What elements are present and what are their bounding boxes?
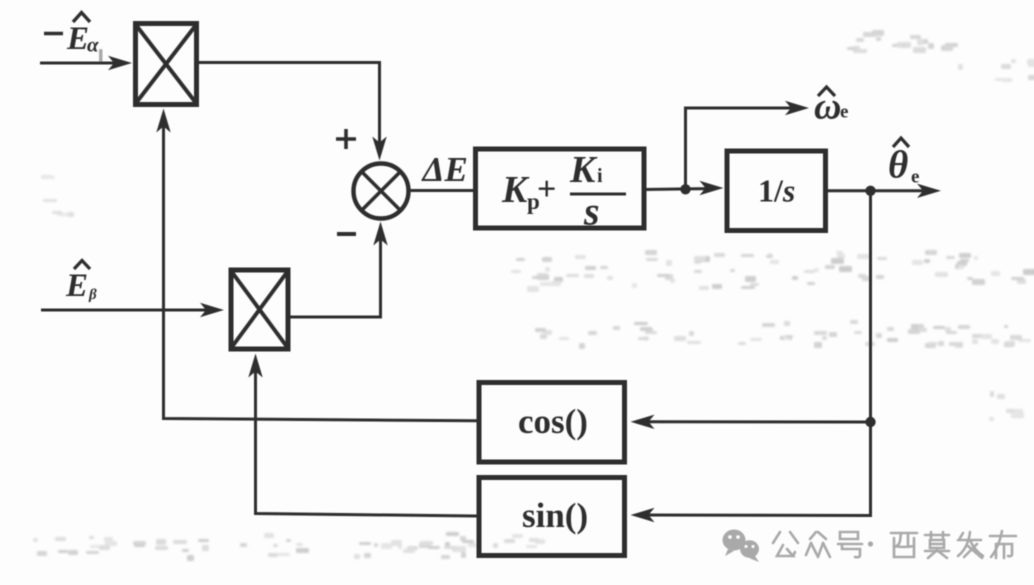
PI controller block Kp+Ki/s [476,149,645,234]
label -E_alpha [44,13,99,58]
svg-text:K: K [569,149,598,191]
label E_beta [65,261,97,305]
minus sign [337,232,356,236]
wire: branch to omega_e [686,101,810,189]
plus sign [336,129,356,149]
svg-text:cos(): cos() [518,402,588,441]
node: cos tap [865,417,875,427]
wire: cos output up into M1 [156,109,476,421]
multiplier M1 [136,24,197,105]
svg-text:i: i [597,165,603,187]
svg-text:β: β [88,287,97,303]
svg-text:+: + [537,171,556,208]
wire: feedback vertical [640,191,871,516]
wire: feedback into cos [631,415,871,429]
wire: PI output to 1/s [644,181,724,195]
integrator block 1/s [727,151,826,231]
svg-text:θ: θ [888,144,908,187]
arrow into sin [631,508,655,522]
svg-text:s: s [583,189,600,234]
svg-text:α: α [87,33,99,57]
svg-text:ΔE: ΔE [421,150,468,189]
cos() block [479,383,625,463]
wire: summing junction to PI block [409,189,476,192]
svg-text:1/s: 1/s [758,173,795,209]
watermark text (stylized) [773,531,1016,558]
wire: sin output up into M2 [248,354,476,517]
svg-text:e: e [840,102,848,123]
wire: M2 output into summing junction [291,222,388,318]
wire: M1 output to summing junction [199,63,387,161]
svg-text:e: e [911,167,919,188]
label theta_e [888,138,919,188]
svg-text:K: K [501,169,530,211]
node: feedback branch [865,186,875,196]
wire: input -E_alpha into M1 [40,56,132,70]
svg-text:sin(): sin() [522,496,588,535]
wire: E_beta input into M2 [41,303,224,317]
speck [99,49,103,64]
summing junction [354,164,409,219]
multiplier M2 [231,270,288,349]
svg-text:ω: ω [814,86,841,128]
watermark wechat icon [723,530,760,563]
svg-text:E: E [65,268,88,304]
wire: 1/s output to theta_e [826,184,941,198]
svg-text:E: E [66,21,89,57]
node: omega branch [680,184,690,194]
label omega_e [814,86,848,128]
sin() block [479,478,625,556]
